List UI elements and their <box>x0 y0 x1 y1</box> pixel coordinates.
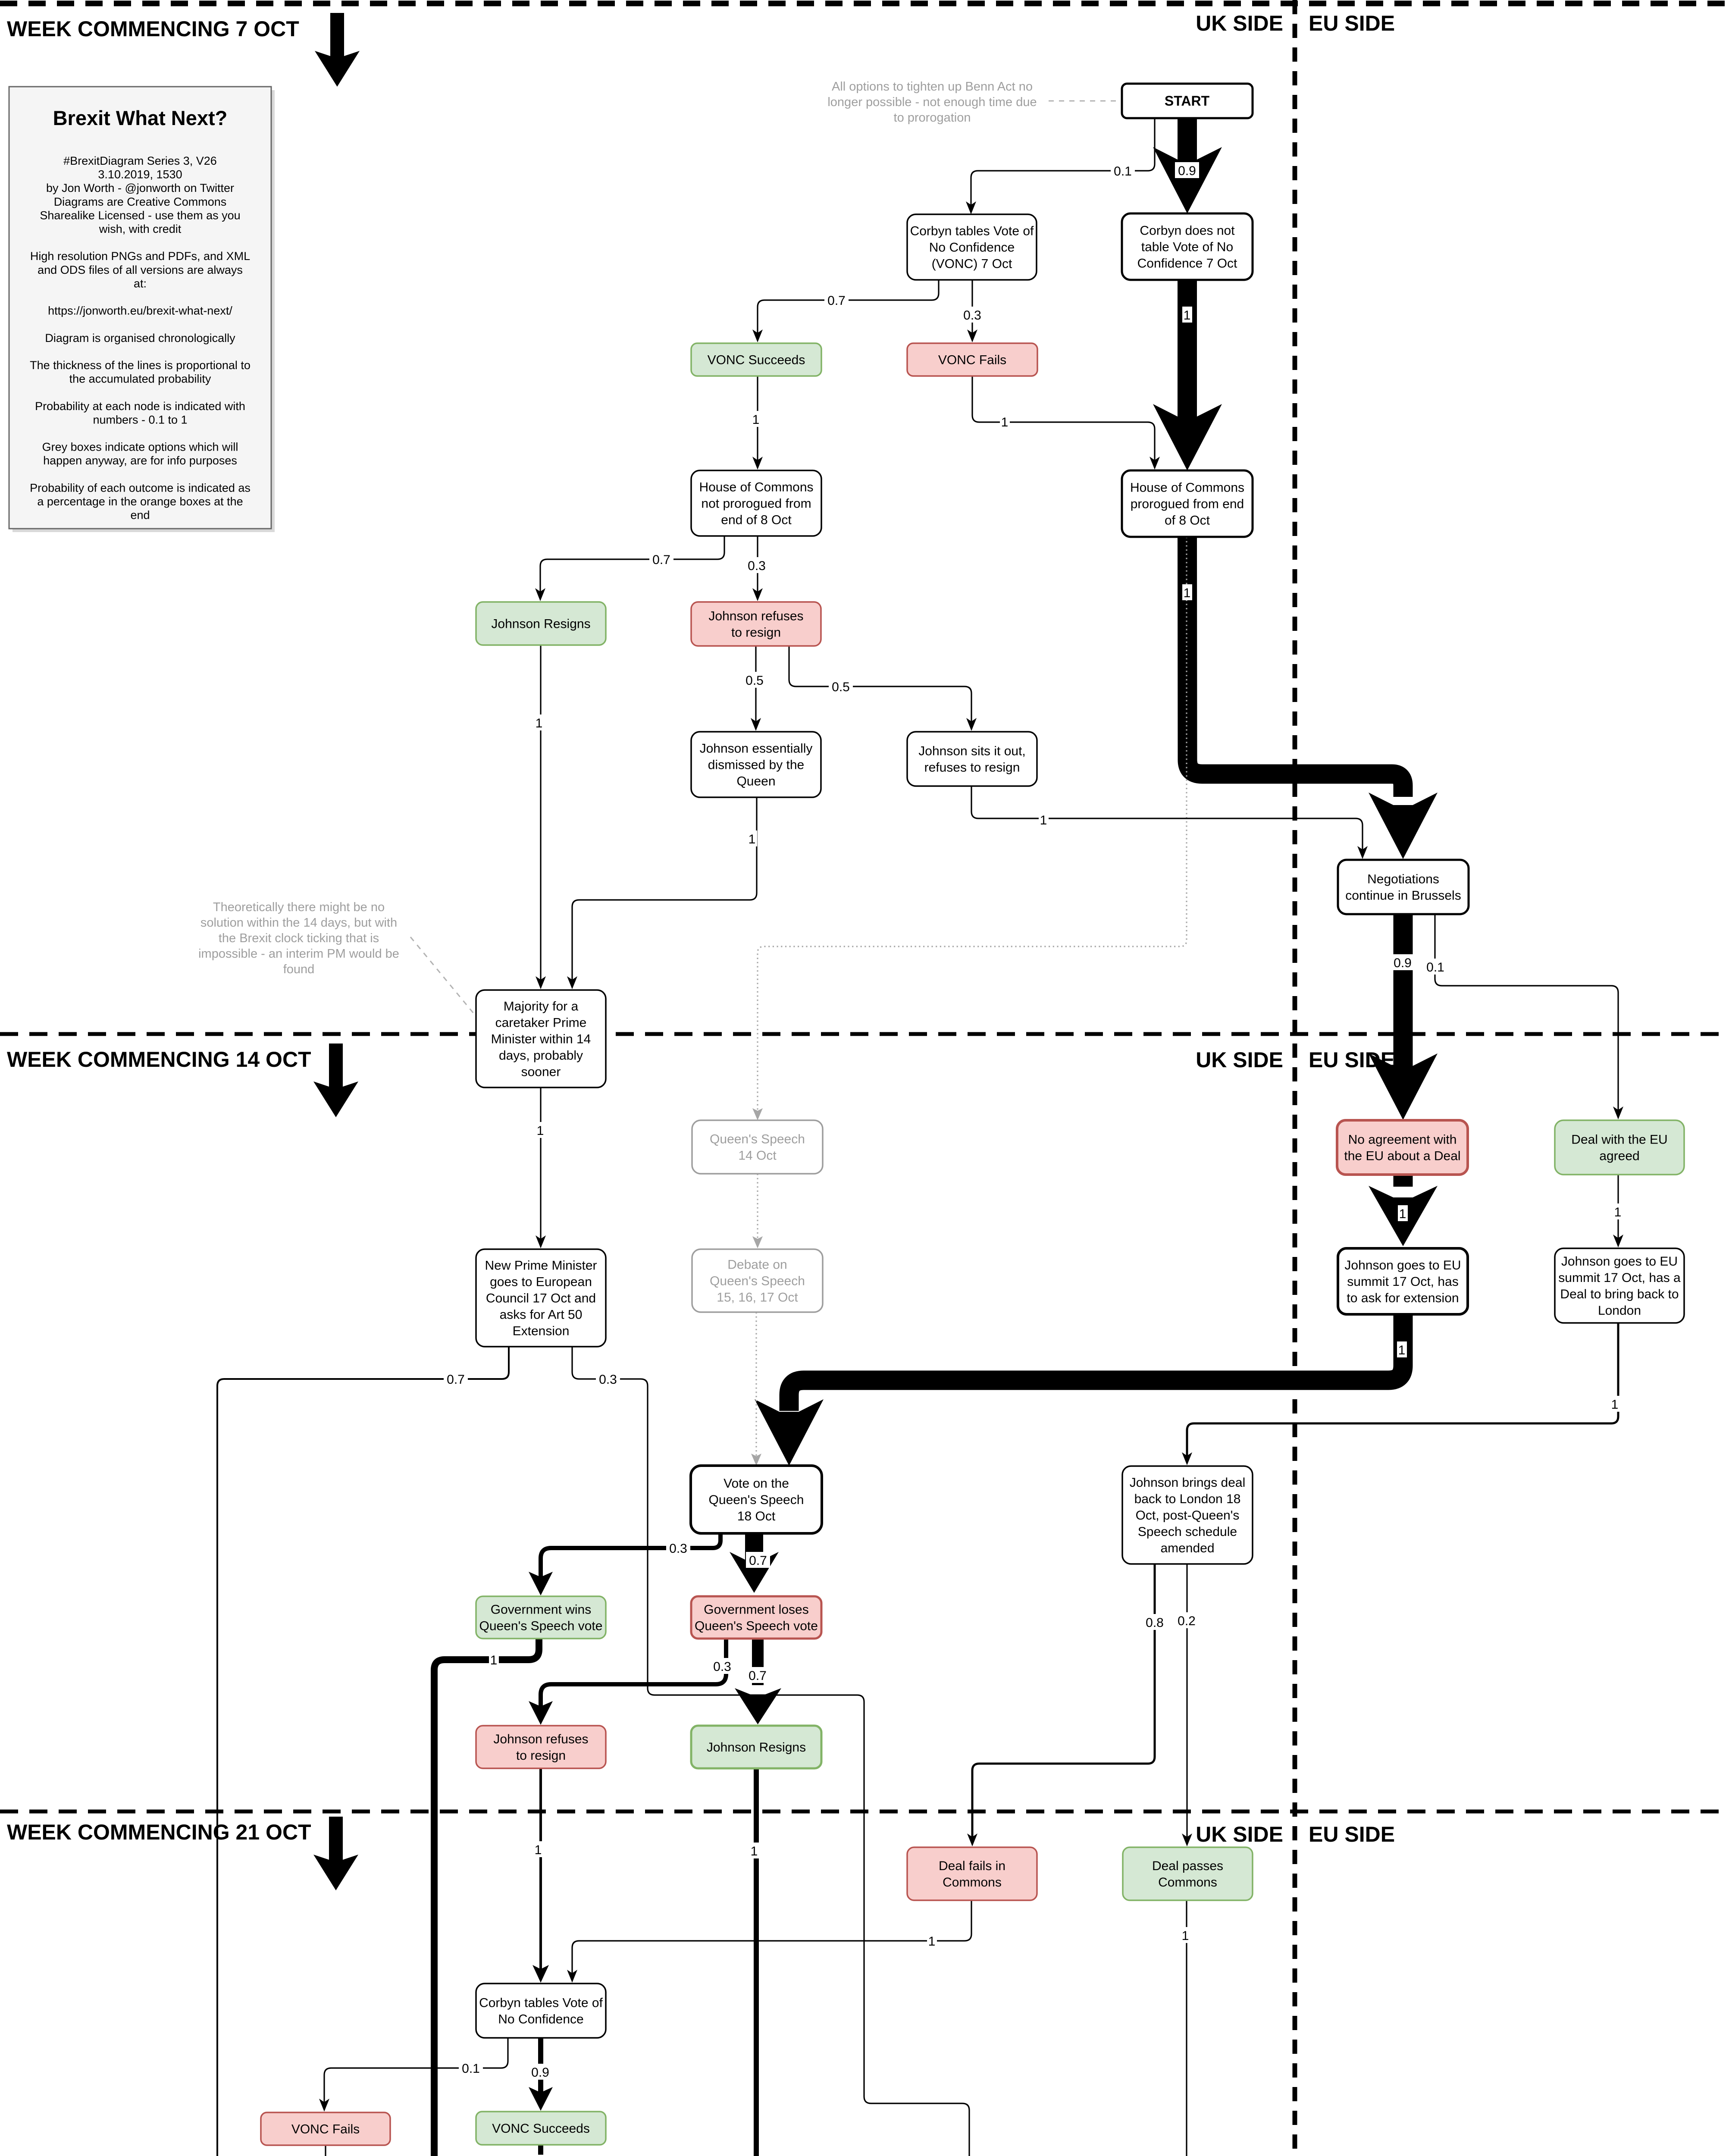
svg-text:1: 1 <box>928 1934 936 1949</box>
svg-text:Johnson Resigns: Johnson Resigns <box>707 1740 806 1755</box>
svg-text:0.7: 0.7 <box>652 553 670 567</box>
svg-text:1: 1 <box>749 832 756 846</box>
svg-text:0.5: 0.5 <box>745 674 764 688</box>
svg-text:UK SIDE: UK SIDE <box>1196 1822 1283 1846</box>
svg-text:0.3: 0.3 <box>713 1660 731 1674</box>
svg-text:1: 1 <box>536 716 543 730</box>
svg-text:0.1: 0.1 <box>462 2062 480 2076</box>
svg-text:0.3: 0.3 <box>599 1373 617 1387</box>
svg-text:VONC Succeeds: VONC Succeeds <box>708 353 805 367</box>
svg-text:1: 1 <box>751 1844 758 1858</box>
svg-text:0.3: 0.3 <box>669 1542 687 1556</box>
svg-text:Johnson goes to EUsummit 17 Oc: Johnson goes to EUsummit 17 Oct, hasto a… <box>1344 1258 1461 1305</box>
svg-text:VONC Fails: VONC Fails <box>291 2122 360 2137</box>
svg-text:1: 1 <box>1611 1398 1619 1412</box>
svg-text:0.7: 0.7 <box>447 1373 465 1387</box>
svg-text:0.5: 0.5 <box>832 680 850 694</box>
svg-text:#BrexitDiagram Series 3, V263.: #BrexitDiagram Series 3, V263.10.2019, 1… <box>30 154 251 522</box>
svg-text:VONC Succeeds: VONC Succeeds <box>492 2122 590 2136</box>
svg-text:1: 1 <box>1399 1207 1406 1221</box>
svg-text:Johnson Resigns: Johnson Resigns <box>491 617 590 631</box>
svg-text:1: 1 <box>535 1843 542 1857</box>
svg-text:0.1: 0.1 <box>1114 164 1132 179</box>
svg-text:0.2: 0.2 <box>1178 1614 1196 1628</box>
svg-text:VONC Fails: VONC Fails <box>938 353 1006 367</box>
svg-text:UK SIDE: UK SIDE <box>1196 11 1283 35</box>
svg-text:WEEK COMMENCING 14 OCT: WEEK COMMENCING 14 OCT <box>7 1047 311 1072</box>
svg-text:0.7: 0.7 <box>749 1669 767 1683</box>
svg-text:EU SIDE: EU SIDE <box>1309 1048 1395 1072</box>
svg-text:1: 1 <box>1398 1343 1406 1357</box>
svg-text:0.3: 0.3 <box>748 559 766 573</box>
svg-text:Brexit What Next?: Brexit What Next? <box>53 107 228 129</box>
svg-text:1: 1 <box>1040 813 1047 827</box>
svg-text:1: 1 <box>490 1653 498 1667</box>
svg-text:0.8: 0.8 <box>1146 1616 1164 1630</box>
svg-text:1: 1 <box>1184 308 1191 323</box>
svg-text:0.3: 0.3 <box>963 308 981 323</box>
svg-text:UK SIDE: UK SIDE <box>1196 1048 1283 1072</box>
svg-text:EU SIDE: EU SIDE <box>1309 1822 1395 1846</box>
svg-text:0.9: 0.9 <box>1394 956 1412 970</box>
svg-text:0.7: 0.7 <box>749 1554 767 1568</box>
svg-text:1: 1 <box>537 1124 544 1138</box>
svg-text:0.9: 0.9 <box>531 2065 549 2080</box>
svg-text:0.1: 0.1 <box>1426 960 1444 975</box>
svg-text:EU SIDE: EU SIDE <box>1309 11 1395 35</box>
svg-text:0.9: 0.9 <box>1178 164 1196 178</box>
svg-text:0.7: 0.7 <box>827 294 846 308</box>
svg-text:WEEK COMMENCING 21 OCT: WEEK COMMENCING 21 OCT <box>7 1820 311 1844</box>
svg-text:1: 1 <box>1614 1205 1622 1219</box>
svg-text:START: START <box>1165 93 1210 109</box>
svg-text:1: 1 <box>1182 1929 1189 1943</box>
svg-text:1: 1 <box>1001 415 1009 429</box>
svg-text:Corbyn does nottable Vote of N: Corbyn does nottable Vote of NoConfidenc… <box>1137 224 1237 271</box>
svg-text:1: 1 <box>1184 586 1191 600</box>
svg-text:WEEK COMMENCING 7 OCT: WEEK COMMENCING 7 OCT <box>7 17 299 41</box>
svg-text:1: 1 <box>752 413 760 427</box>
